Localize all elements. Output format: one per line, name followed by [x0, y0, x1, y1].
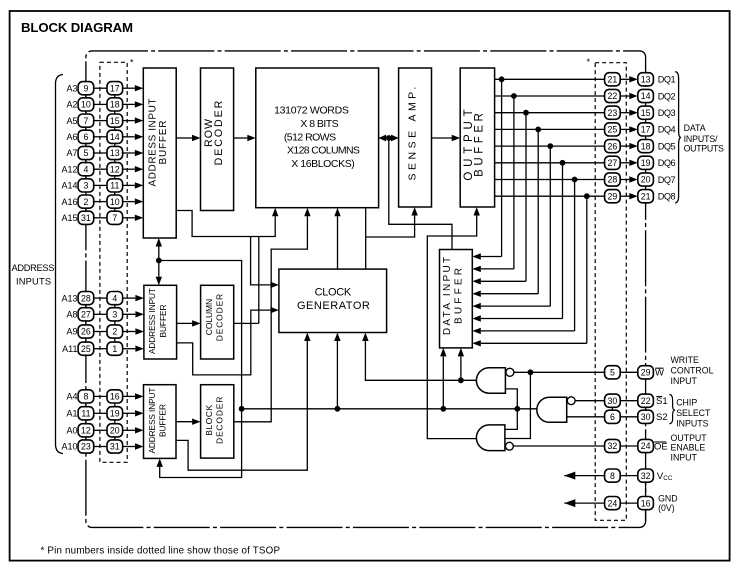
memory array — [256, 68, 379, 208]
vertical links between address pins (TSOP column) — [114, 88, 116, 218]
brace: chip select group — [669, 394, 675, 423]
svg-text:15: 15 — [110, 116, 120, 126]
junction: array/sense amp node — [386, 135, 392, 141]
address pin A6 (SOP 6 / TSOP 14) — [66, 130, 143, 143]
svg-text:24: 24 — [641, 441, 651, 451]
svg-text:DQ7: DQ7 — [658, 175, 676, 185]
svg-text:DQ1: DQ1 — [658, 75, 676, 85]
svg-text:13: 13 — [110, 148, 120, 158]
svg-text:A11: A11 — [62, 344, 77, 354]
wire: W branch down to gate G3 input — [505, 372, 531, 438]
svg-text:INPUTS: INPUTS — [676, 419, 708, 429]
sense amplifier — [399, 68, 432, 207]
svg-text:CONTROL: CONTROL — [671, 366, 714, 376]
svg-text:23: 23 — [81, 442, 91, 452]
svg-text:DQ4: DQ4 — [658, 125, 676, 135]
svg-text:A16: A16 — [61, 197, 77, 207]
wire: clock generator top to array (clock) — [337, 216, 339, 269]
svg-text:6: 6 — [83, 132, 88, 142]
svg-text:19: 19 — [110, 409, 120, 419]
svg-text:20: 20 — [641, 175, 651, 185]
svg-text:A9: A9 — [66, 327, 77, 337]
block decoder — [201, 385, 234, 458]
address input buffer U1 (row address) — [143, 68, 176, 238]
svg-text:INPUTS: INPUTS — [16, 277, 51, 287]
svg-text:14: 14 — [641, 91, 651, 101]
NAND gate G2 (chip select) — [537, 397, 567, 422]
column decoder — [201, 285, 234, 359]
svg-text:16: 16 — [110, 392, 120, 402]
link S pills — [611, 401, 613, 417]
svg-text:13: 13 — [641, 75, 651, 85]
output buffer — [460, 68, 494, 207]
address pin A7 (SOP 5 / TSOP 13) — [66, 146, 143, 159]
svg-text:A12: A12 — [61, 164, 77, 174]
pin OE (TSOP 32 / SOP 24) — [605, 439, 654, 452]
wire: select line to clock generator bottom input 2 — [336, 341, 338, 409]
svg-text:2: 2 — [112, 327, 117, 337]
svg-text:OUTPUT: OUTPUT — [671, 433, 708, 443]
svg-text:SELECT: SELECT — [676, 408, 711, 418]
clock generator label — [297, 286, 370, 312]
svg-text:A8: A8 — [66, 310, 77, 320]
clock generator — [279, 269, 387, 332]
svg-text:16: 16 — [641, 498, 651, 508]
pin GND (TSOP 24 / SOP 16) — [605, 497, 654, 510]
svg-text:12: 12 — [110, 164, 120, 174]
svg-text:A13: A13 — [61, 293, 77, 303]
TSOP dashed box (left, address pins) — [100, 62, 127, 462]
label WRITE CONTROL INPUT — [671, 355, 714, 386]
svg-text:10: 10 — [110, 197, 120, 207]
wire: address input buffer to row decoder — [176, 137, 192, 139]
svg-text:DQ3: DQ3 — [658, 108, 676, 118]
svg-text:A2: A2 — [66, 100, 77, 110]
svg-text:GND: GND — [658, 494, 678, 504]
svg-text:7: 7 — [83, 116, 88, 126]
label DATA INPUTS/OUTPUTS — [684, 123, 724, 153]
wire: AIB1 bottom step to array (H1) — [176, 211, 275, 237]
brace: data inputs/outputs group — [675, 72, 681, 204]
wire: riser G1 output to data input buffer — [460, 356, 462, 380]
svg-text:(512 ROWS: (512 ROWS — [284, 131, 336, 143]
svg-text:10: 10 — [81, 100, 91, 110]
svg-text:ADDRESS INPUT: ADDRESS INPUT — [147, 288, 157, 354]
svg-text:29: 29 — [641, 368, 651, 378]
svg-text:X 8 BITS: X 8 BITS — [300, 118, 338, 130]
svg-text:1: 1 — [112, 344, 117, 354]
svg-text:A0: A0 — [66, 426, 77, 436]
svg-text:32: 32 — [641, 471, 651, 481]
wire: AIB3 output to block decoder — [176, 421, 192, 423]
wire: gate G1 lower input from select node — [505, 389, 517, 430]
svg-text:ADDRESS: ADDRESS — [12, 263, 55, 273]
junction: select line at clock riser — [335, 406, 341, 412]
svg-text:OE: OE — [654, 441, 668, 452]
svg-text:25: 25 — [608, 125, 618, 135]
svg-text:S2: S2 — [656, 412, 668, 423]
wire: select line (gate G2 output across chip) — [242, 408, 537, 410]
svg-text:A10: A10 — [61, 442, 77, 452]
svg-text:28: 28 — [608, 175, 618, 185]
row decoder — [201, 68, 234, 211]
svg-text:29: 29 — [608, 191, 618, 201]
svg-text:X128 COLUMNS: X128 COLUMNS — [287, 145, 360, 157]
wire: memory array to sense amp (bidirectional) — [379, 137, 399, 139]
data input buffer — [440, 250, 473, 348]
wire: GND pill to boundary corner — [645, 503, 647, 521]
wire: sense amp to output buffer — [432, 137, 453, 139]
svg-text:3: 3 — [83, 181, 88, 191]
svg-text:OUTPUTS: OUTPUTS — [684, 144, 724, 154]
svg-text:DQ5: DQ5 — [658, 141, 676, 151]
link Vcc-GND pills — [645, 476, 647, 504]
junction: G1 output to data input buffer riser — [458, 377, 464, 383]
address pin A5 (SOP 7 / TSOP 15) — [66, 114, 143, 127]
svg-text:DQ6: DQ6 — [658, 158, 676, 168]
label GND (0V) — [658, 494, 678, 514]
svg-text:31: 31 — [110, 442, 120, 452]
junction: select node at gates — [514, 406, 520, 412]
svg-text:28: 28 — [81, 293, 91, 303]
svg-text:17: 17 — [110, 83, 120, 93]
data pin DQ1 (TSOP 21 / SOP 13) wire from output buffer — [472, 73, 675, 260]
svg-text:BLOCK DIAGRAM: BLOCK DIAGRAM — [21, 20, 133, 35]
svg-text:DATA: DATA — [684, 123, 706, 133]
svg-text:BUFFER: BUFFER — [158, 121, 169, 165]
svg-text:A7: A7 — [66, 148, 77, 158]
pin W (TSOP 5 / SOP 29) — [605, 366, 654, 379]
svg-text:25: 25 — [81, 344, 91, 354]
svg-text:A3: A3 — [66, 83, 77, 93]
svg-text:BUFFER: BUFFER — [158, 404, 168, 437]
wire: riser select to data input buffer — [442, 356, 444, 408]
address pin A4 (SOP 8 / TSOP 16) — [66, 390, 143, 403]
svg-text:CLOCK: CLOCK — [315, 286, 352, 298]
address pin A3 (SOP 9 / TSOP 17) — [66, 82, 143, 95]
svg-text:CHIP: CHIP — [676, 398, 697, 408]
svg-text:4: 4 — [83, 164, 88, 174]
svg-text:22: 22 — [641, 396, 651, 406]
wire: OE pin line to G3 bubble — [513, 445, 605, 447]
svg-text:11: 11 — [110, 181, 119, 191]
svg-text:(0V): (0V) — [658, 503, 675, 513]
svg-text:BLOCK: BLOCK — [204, 404, 214, 435]
svg-text:A15: A15 — [61, 213, 77, 223]
data pin DQ6 (TSOP 27 / SOP 19) wire from output buffer — [472, 156, 675, 322]
svg-text:DECODER: DECODER — [214, 294, 224, 341]
wire: H1 branch down to clock generator input 1 — [251, 237, 271, 285]
svg-text:24: 24 — [608, 498, 618, 508]
label OUTPUT ENABLE INPUT — [671, 433, 708, 463]
pin S1 (TSOP 30 / SOP 22) — [605, 394, 654, 407]
svg-text:26: 26 — [608, 141, 618, 151]
wire: GND pin — [564, 502, 604, 504]
wire: AIB3 step to clock generator bottom input 1 — [176, 341, 307, 470]
address pin A0 (SOP 12 / TSOP 20) — [66, 424, 143, 437]
TSOP dashed box (right, data/control pins) — [595, 63, 626, 521]
NAND gate G1 (write control) — [476, 368, 505, 394]
svg-text:23: 23 — [608, 108, 618, 118]
svg-text:18: 18 — [641, 141, 651, 151]
junction: W line branch — [528, 369, 534, 375]
wire: gate G3 output to output buffer enable — [427, 216, 476, 439]
svg-text:31: 31 — [81, 213, 91, 223]
data pin DQ4 (TSOP 25 / SOP 17) wire from output buffer — [472, 123, 675, 297]
svg-text:4: 4 — [112, 293, 117, 303]
address pin A15 (SOP 31 / TSOP 7) — [61, 211, 143, 224]
svg-text:7: 7 — [112, 213, 117, 223]
label CHIP SELECT INPUTS — [676, 398, 711, 429]
wire: S2 pin line to G2 — [567, 416, 605, 418]
junction: select to data input buffer riser — [440, 406, 446, 412]
svg-text:8: 8 — [83, 392, 88, 402]
vertical links between address pins (SOP column) — [85, 88, 87, 218]
svg-text:5: 5 — [610, 368, 615, 378]
wire: W internal line (gate G1 output bubble to pin) — [514, 371, 605, 373]
address input buffer U3 (block address) — [144, 385, 177, 459]
address pin A16 (SOP 2 / TSOP 10) — [61, 195, 143, 208]
svg-text:8: 8 — [610, 471, 615, 481]
svg-text:18: 18 — [110, 100, 120, 110]
wire: clock node across to V2 riser down to AIB3 — [159, 261, 242, 478]
svg-text:S1: S1 — [656, 396, 668, 407]
svg-text:A4: A4 — [66, 392, 77, 402]
svg-text:27: 27 — [608, 158, 618, 168]
G1 bubble — [506, 368, 514, 376]
svg-text:GENERATOR: GENERATOR — [297, 300, 370, 312]
wire: array/sense node down to data input buffer top — [389, 138, 452, 250]
svg-text:ADDRESS INPUT: ADDRESS INPUT — [148, 99, 159, 187]
svg-text:WRITE: WRITE — [671, 355, 699, 365]
svg-text:COLUMN: COLUMN — [204, 299, 214, 335]
address pin A8 (SOP 27 / TSOP 3) — [66, 308, 143, 321]
svg-text:6: 6 — [610, 412, 615, 422]
svg-text:20: 20 — [110, 426, 120, 436]
svg-text:22: 22 — [608, 91, 618, 101]
svg-text:131072 WORDS: 131072 WORDS — [274, 105, 349, 117]
address pin A11 (SOP 25 / TSOP 1) — [62, 342, 144, 355]
wire: H1 branch down to column row (V5) — [258, 237, 260, 324]
svg-text:3: 3 — [112, 310, 117, 320]
wire: column decoder output row — [234, 322, 259, 324]
svg-text:* Pin numbers inside dotted li: * Pin numbers inside dotted line show th… — [41, 546, 281, 557]
G2 bubble — [567, 397, 575, 405]
svg-text:DQ8: DQ8 — [658, 192, 676, 202]
wire: AIB1/AIB2 shared clock (double arrow) — [158, 247, 160, 277]
data pin DQ7 (TSOP 28 / SOP 20) wire from output buffer — [472, 173, 675, 334]
svg-text:14: 14 — [110, 132, 120, 142]
svg-text:BUFFER: BUFFER — [158, 305, 168, 338]
svg-text:27: 27 — [81, 310, 91, 320]
address pin A2 (SOP 10 / TSOP 18) — [66, 98, 143, 111]
svg-text:32: 32 — [608, 441, 618, 451]
address pin A1 (SOP 11 / TSOP 19) — [66, 407, 143, 420]
wire: row decoder to memory array — [234, 137, 248, 139]
address input buffer U2 (column address) — [144, 285, 177, 359]
svg-text:30: 30 — [641, 412, 651, 422]
NAND gate G3 (output enable) — [476, 425, 505, 451]
svg-text:5: 5 — [83, 148, 88, 158]
svg-text:A5: A5 — [66, 116, 77, 126]
svg-text:17: 17 — [641, 125, 651, 135]
junction: address buffer clock node — [156, 258, 162, 264]
address inputs bracket — [56, 75, 64, 454]
address pin A12 (SOP 4 / TSOP 12) — [61, 163, 143, 176]
svg-text:15: 15 — [641, 108, 651, 118]
junction: V2 at select line — [239, 406, 245, 412]
svg-text:A1: A1 — [66, 409, 77, 419]
svg-text:26: 26 — [81, 327, 91, 337]
address pin A13 (SOP 28 / TSOP 4) — [61, 292, 143, 305]
svg-text:ADDRESS INPUT: ADDRESS INPUT — [147, 388, 157, 454]
data pin DQ8 (TSOP 29 / SOP 21) wire from output buffer — [472, 190, 675, 347]
svg-text:DECODER: DECODER — [214, 397, 224, 444]
address pin A9 (SOP 26 / TSOP 2) — [66, 325, 143, 338]
data pin DQ5 (TSOP 26 / SOP 18) wire from output buffer — [472, 140, 675, 310]
svg-text:X 16BLOCKS): X 16BLOCKS) — [291, 158, 355, 170]
svg-text:INPUT: INPUT — [671, 452, 698, 462]
svg-text:30: 30 — [608, 396, 618, 406]
wire: Vcc pin — [564, 475, 604, 477]
svg-text:W: W — [655, 368, 664, 379]
svg-text:11: 11 — [81, 409, 90, 419]
svg-text:DATA INPUT: DATA INPUT — [442, 257, 453, 335]
pin S2 (TSOP 6 / SOP 30) — [605, 410, 654, 423]
memory array capacity text — [274, 105, 360, 171]
svg-text:*: * — [130, 58, 134, 68]
svg-text:19: 19 — [641, 158, 651, 168]
svg-text:DQ2: DQ2 — [658, 91, 676, 101]
svg-text:CC: CC — [663, 475, 673, 482]
address pin A10 (SOP 23 / TSOP 31) — [61, 440, 143, 453]
address pin A14 (SOP 3 / TSOP 11) — [61, 179, 143, 192]
svg-text:*: * — [586, 57, 590, 67]
svg-text:INPUTS/: INPUTS/ — [684, 134, 718, 144]
svg-text:9: 9 — [83, 83, 88, 93]
svg-text:ENABLE: ENABLE — [671, 442, 706, 452]
svg-text:A14: A14 — [61, 181, 77, 191]
svg-text:2: 2 — [83, 197, 88, 207]
data pin DQ2 (TSOP 22 / SOP 14) wire from output buffer — [472, 89, 675, 272]
chip boundary (dash-dot) — [86, 51, 646, 528]
wire: block decoder output up to memory array — [234, 216, 308, 422]
svg-text:INPUT: INPUT — [671, 376, 698, 386]
svg-text:A6: A6 — [66, 132, 77, 142]
pin Vcc (TSOP 8 / SOP 32) — [605, 469, 654, 482]
data pin DQ3 (TSOP 23 / SOP 15) wire from output buffer — [472, 106, 675, 284]
svg-text:21: 21 — [608, 75, 618, 85]
svg-text:21: 21 — [641, 191, 651, 201]
wire: AIB2 step around column decoder to clock generator input 2 — [177, 310, 271, 375]
svg-text:12: 12 — [81, 426, 91, 436]
wire: clock generator top/array to sense amp enable — [365, 208, 367, 269]
wire: gate G1 output line to clock generator bottom input 3 — [365, 341, 476, 380]
G3 bubble — [506, 442, 514, 450]
wire: S1 pin line to G2 bubble — [575, 400, 605, 402]
wire: AIB2 output to column decoder — [177, 322, 193, 324]
